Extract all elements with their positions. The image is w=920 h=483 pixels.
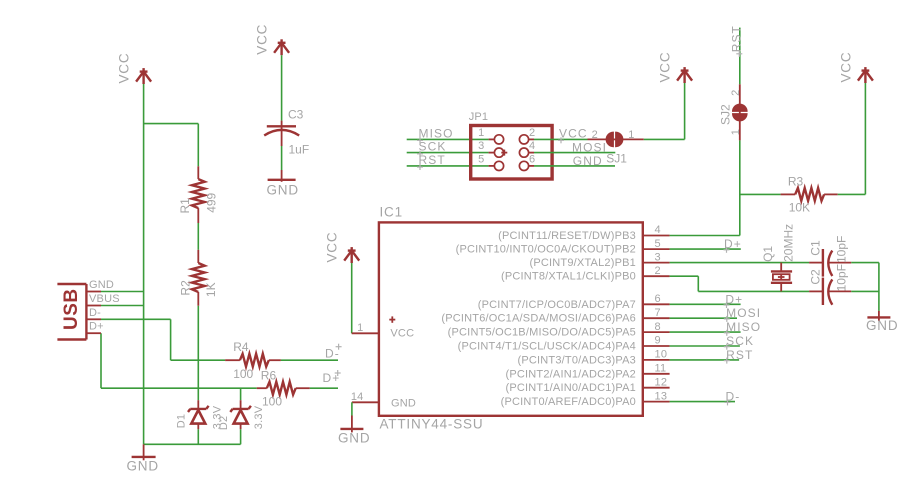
svg-text:(PCINT5/OC1B/MISO/DO/ADC5)PA5: (PCINT5/OC1B/MISO/DO/ADC5)PA5 bbox=[448, 327, 636, 339]
wire VBUS rail vertical bbox=[143, 84, 145, 444]
svg-text:JP1: JP1 bbox=[469, 111, 489, 123]
label D+ (pin5) bbox=[724, 237, 742, 253]
wire MISO to JP1 bbox=[407, 138, 489, 140]
wire SCK to JP1 bbox=[407, 152, 489, 154]
svg-text:(PCINT0/AREF/ADC0)PA0: (PCINT0/AREF/ADC0)PA0 bbox=[501, 396, 636, 408]
pin JP1-1 bbox=[478, 127, 503, 144]
pin IC1-6 PA7 bbox=[478, 293, 670, 311]
solder jumper SJ1 bbox=[588, 129, 644, 166]
wire R3 tee bbox=[740, 193, 781, 195]
wire R2 to D1 bbox=[197, 306, 199, 401]
ground GND (caps) bbox=[866, 311, 898, 333]
svg-text:D1: D1 bbox=[176, 414, 188, 428]
wire pin8 MISO bbox=[670, 331, 741, 333]
wire D- to R4 bbox=[171, 359, 226, 361]
wire pin13 D- bbox=[670, 401, 735, 403]
pin IC1-8 PA5 bbox=[448, 321, 670, 339]
svg-text:1K: 1K bbox=[204, 282, 218, 297]
pin IC1-7 PA6 bbox=[441, 307, 669, 325]
svg-text:7: 7 bbox=[655, 307, 661, 319]
pin IC1-14 GND bbox=[351, 391, 379, 403]
label MISO bbox=[417, 126, 454, 143]
pin IC1-12 PA1 bbox=[505, 376, 669, 394]
svg-text:12: 12 bbox=[655, 376, 668, 388]
svg-text:3.3V: 3.3V bbox=[253, 405, 265, 429]
svg-text:5: 5 bbox=[655, 238, 661, 250]
svg-text:ATTINY44-SSU: ATTINY44-SSU bbox=[380, 417, 484, 432]
svg-text:8: 8 bbox=[655, 321, 661, 333]
wire D- drop bbox=[170, 319, 172, 360]
svg-text:(PCINT7/ICP/OC0B/ADC7)PA7: (PCINT7/ICP/OC0B/ADC7)PA7 bbox=[478, 299, 636, 311]
wire right rail drop bbox=[878, 263, 880, 311]
svg-text:(PCINT8/XTAL1/CLKI)PB0: (PCINT8/XTAL1/CLKI)PB0 bbox=[501, 271, 636, 283]
wire pin9 SCK bbox=[670, 345, 740, 347]
pin USB GND bbox=[86, 291, 101, 293]
connector X1 USB bbox=[57, 284, 86, 340]
svg-text:13: 13 bbox=[655, 390, 668, 402]
label D+ bbox=[323, 370, 341, 385]
wire VCC to pin1 bbox=[351, 263, 353, 333]
svg-text:SCK: SCK bbox=[726, 334, 754, 348]
svg-text:100: 100 bbox=[262, 394, 282, 408]
wire D+ to R6 bbox=[101, 387, 257, 389]
wire pin2 XTAL1 path bbox=[670, 276, 810, 291]
supply VCC (C3) bbox=[255, 24, 290, 55]
svg-text:GND: GND bbox=[89, 279, 114, 291]
resistor R4 bbox=[225, 340, 281, 381]
svg-text:GND: GND bbox=[391, 398, 416, 410]
wire ground rail bbox=[144, 443, 241, 445]
svg-text:6: 6 bbox=[655, 293, 661, 305]
svg-text:D-: D- bbox=[325, 347, 340, 361]
svg-text:1uF: 1uF bbox=[289, 143, 310, 157]
wire RST stub bbox=[739, 28, 741, 85]
pin IC1-13 PA0 bbox=[501, 390, 670, 408]
wire pin10 RST bbox=[670, 359, 740, 361]
pin JP1-4 bbox=[519, 140, 535, 157]
solder jumper SJ2 bbox=[719, 84, 748, 140]
wire SJ2 to pin4 bbox=[739, 140, 741, 235]
wire JP1-4 MOSI bbox=[534, 152, 615, 154]
svg-text:1: 1 bbox=[730, 129, 742, 135]
svg-text:RST: RST bbox=[419, 153, 446, 167]
label RST (vertical) bbox=[729, 25, 743, 57]
pin IC1-3 PB1 bbox=[529, 251, 669, 269]
wire R4 to D- label bbox=[281, 359, 338, 361]
svg-text:VCC: VCC bbox=[838, 52, 853, 83]
wire R3 to VCC bbox=[838, 193, 866, 195]
svg-text:GND: GND bbox=[338, 431, 370, 446]
ground GND (bottom left) bbox=[127, 444, 159, 473]
wire R1 top drop bbox=[197, 124, 199, 167]
svg-text:3: 3 bbox=[655, 251, 661, 263]
svg-text:10K: 10K bbox=[789, 201, 810, 215]
svg-text:10: 10 bbox=[655, 349, 668, 361]
svg-text:6: 6 bbox=[529, 153, 535, 165]
svg-text:GND: GND bbox=[127, 459, 159, 474]
label D- bbox=[325, 344, 342, 361]
svg-text:SJ2: SJ2 bbox=[719, 104, 733, 125]
svg-text:14: 14 bbox=[351, 391, 364, 403]
crystal Q1 20MHz bbox=[761, 224, 796, 292]
pin USB D+ bbox=[86, 332, 101, 334]
svg-text:11: 11 bbox=[655, 363, 667, 375]
svg-text:SJ1: SJ1 bbox=[606, 151, 627, 165]
wire VCC to C3 bbox=[281, 55, 283, 120]
pin USB VBUS bbox=[86, 305, 101, 307]
label RST bbox=[417, 153, 446, 170]
svg-text:MISO: MISO bbox=[419, 126, 454, 140]
svg-text:Q1: Q1 bbox=[761, 246, 775, 262]
diode D2 (zener 3.3V) bbox=[218, 400, 265, 430]
svg-text:SCK: SCK bbox=[419, 140, 447, 154]
wire RST to JP1 bbox=[407, 165, 489, 167]
svg-text:R4: R4 bbox=[233, 340, 249, 354]
svg-text:(PCINT2/AIN1/ADC2)PA2: (PCINT2/AIN1/ADC2)PA2 bbox=[505, 368, 636, 380]
svg-text:VCC: VCC bbox=[390, 328, 414, 340]
svg-text:C1: C1 bbox=[808, 240, 822, 256]
resistor R2 bbox=[179, 250, 219, 306]
svg-text:20MHz: 20MHz bbox=[782, 224, 796, 262]
svg-text:MOSI: MOSI bbox=[572, 141, 607, 155]
svg-text:(PCINT10/INT0/OC0A/CKOUT)PB2: (PCINT10/INT0/OC0A/CKOUT)PB2 bbox=[456, 244, 636, 256]
pin IC1-11 PA2 bbox=[505, 363, 669, 381]
svg-text:D+: D+ bbox=[725, 292, 743, 306]
ic IC1 body bbox=[379, 205, 643, 432]
label MOSI (pin7) bbox=[724, 306, 761, 322]
wire R6 to D+ label bbox=[310, 387, 338, 389]
ground GND (C3) bbox=[267, 170, 299, 198]
svg-text:(PCINT11/RESET/DW)PB3: (PCINT11/RESET/DW)PB3 bbox=[498, 230, 636, 242]
wire SJ1 to VCC bbox=[644, 138, 685, 140]
pin IC1-5 PB2 bbox=[456, 238, 670, 256]
label SCK bbox=[417, 140, 446, 157]
svg-text:1: 1 bbox=[478, 127, 484, 139]
svg-text:R2: R2 bbox=[179, 280, 193, 296]
pin IC1-2 PB0 bbox=[501, 265, 670, 283]
svg-text:10pF: 10pF bbox=[834, 236, 848, 263]
svg-text:10pF: 10pF bbox=[834, 264, 848, 291]
wire D2 to ground rail bbox=[240, 429, 242, 444]
svg-text:5: 5 bbox=[478, 153, 484, 165]
supply VCC (mid) bbox=[658, 52, 693, 83]
wire R1-R2 link bbox=[197, 223, 199, 250]
label SCK (pin9) bbox=[724, 334, 754, 350]
resistor R3 bbox=[781, 174, 838, 214]
svg-text:USB: USB bbox=[61, 288, 82, 330]
svg-text:MISO: MISO bbox=[726, 320, 761, 334]
pin JP1-3 bbox=[478, 140, 507, 157]
diode D1 (zener 3.3V) bbox=[176, 400, 224, 429]
wire pin6 D+ bbox=[670, 303, 741, 305]
supply VCC (left, P+1) bbox=[117, 53, 152, 84]
wire USB VBUS bbox=[101, 305, 144, 307]
capacitor C3 1uF bbox=[264, 108, 309, 157]
svg-text:GND: GND bbox=[267, 183, 299, 198]
svg-text:GND: GND bbox=[573, 154, 603, 168]
svg-text:VCC: VCC bbox=[255, 24, 270, 55]
svg-text:R6: R6 bbox=[261, 368, 277, 382]
pin IC1-9 PA4 bbox=[458, 335, 670, 353]
label D+ (pin6) bbox=[724, 292, 744, 308]
svg-text:100: 100 bbox=[233, 367, 253, 381]
wire VCC tee to R1 bbox=[144, 123, 199, 125]
svg-text:499: 499 bbox=[205, 192, 219, 212]
wire USB GND bbox=[101, 291, 144, 293]
svg-text:9: 9 bbox=[655, 335, 661, 347]
capacitor C1 10pF bbox=[808, 236, 851, 277]
svg-text:RST: RST bbox=[729, 25, 743, 52]
svg-text:(PCINT6/OC1A/SDA/MOSI/ADC6)PA6: (PCINT6/OC1A/SDA/MOSI/ADC6)PA6 bbox=[441, 313, 636, 325]
connector JP1 bbox=[469, 111, 552, 179]
svg-text:RST: RST bbox=[726, 348, 753, 362]
wire VCC riser right bbox=[864, 83, 866, 194]
svg-text:VCC: VCC bbox=[559, 127, 588, 141]
wire D2 top bbox=[240, 388, 242, 400]
pin JP1-5 bbox=[478, 153, 503, 170]
wire USB D- bbox=[101, 318, 171, 320]
svg-text:D-: D- bbox=[89, 307, 101, 319]
label D- (pin13) bbox=[725, 390, 741, 406]
svg-text:4: 4 bbox=[529, 140, 535, 152]
wire pin3 XTAL2 row bbox=[670, 262, 810, 264]
ground GND (IC1) bbox=[338, 416, 370, 446]
wire JP1-2 to SJ1 bbox=[534, 138, 588, 140]
svg-text:C2: C2 bbox=[808, 269, 822, 285]
svg-text:(PCINT1/AIN0/ADC1)PA1: (PCINT1/AIN0/ADC1)PA1 bbox=[505, 382, 636, 394]
resistor R6 bbox=[257, 368, 310, 408]
wire C1 to right rail bbox=[851, 262, 879, 264]
wire USB D+ drop bbox=[100, 333, 102, 388]
wire pin7 MOSI bbox=[670, 317, 737, 319]
svg-text:1: 1 bbox=[357, 322, 363, 334]
wire VCC riser bbox=[684, 83, 686, 139]
svg-text:MOSI: MOSI bbox=[726, 306, 761, 320]
svg-text:4: 4 bbox=[655, 224, 661, 236]
label RST (pin10) bbox=[724, 348, 754, 364]
svg-text:(PCINT9/XTAL2)PB1: (PCINT9/XTAL2)PB1 bbox=[529, 257, 636, 269]
supply VCC (right) bbox=[838, 52, 873, 83]
wire C2 to right rail bbox=[851, 290, 879, 292]
svg-text:R1: R1 bbox=[178, 198, 192, 214]
wire pin4 to SJ2 net bbox=[670, 235, 740, 237]
wire C3 to GND bbox=[281, 146, 283, 170]
label VCC bbox=[558, 127, 588, 144]
wire JP1-6 GND bbox=[534, 165, 615, 167]
pin USB D- bbox=[86, 318, 101, 320]
svg-text:C3: C3 bbox=[288, 108, 304, 122]
svg-text:2: 2 bbox=[529, 127, 535, 139]
resistor R1 bbox=[178, 166, 219, 223]
svg-text:3: 3 bbox=[478, 140, 484, 152]
svg-text:2: 2 bbox=[592, 129, 598, 141]
svg-text:VCC: VCC bbox=[117, 53, 132, 84]
svg-text:(PCINT3/T0/ADC3)PA3: (PCINT3/T0/ADC3)PA3 bbox=[517, 354, 636, 366]
svg-text:D2: D2 bbox=[218, 416, 230, 430]
pin IC1-1 VCC bbox=[352, 322, 379, 334]
svg-text:R3: R3 bbox=[788, 174, 804, 188]
wire pin5 D+ bbox=[670, 248, 741, 250]
svg-text:GND: GND bbox=[866, 318, 898, 333]
svg-text:VCC: VCC bbox=[325, 232, 340, 263]
pin IC1-4 PB3 bbox=[498, 224, 669, 242]
svg-text:VBUS: VBUS bbox=[89, 293, 120, 305]
supply VCC (IC1 pin1) bbox=[325, 232, 360, 263]
svg-text:D+: D+ bbox=[89, 321, 104, 333]
svg-text:1: 1 bbox=[628, 129, 634, 141]
wire D1 to ground rail bbox=[197, 429, 199, 444]
label MISO (pin8) bbox=[724, 320, 761, 336]
pin IC1-10 PA3 bbox=[517, 349, 669, 367]
capacitor C2 10pF bbox=[808, 264, 851, 305]
pin JP1-2 bbox=[519, 127, 535, 144]
svg-text:(PCINT4/T1/SCL/USCK/ADC4)PA4: (PCINT4/T1/SCL/USCK/ADC4)PA4 bbox=[458, 341, 636, 353]
svg-text:2: 2 bbox=[730, 90, 742, 96]
svg-text:2: 2 bbox=[655, 265, 661, 277]
pin JP1-6 bbox=[519, 153, 535, 170]
wire pin14 to GND bbox=[351, 402, 353, 415]
svg-text:VCC: VCC bbox=[658, 52, 673, 83]
svg-text:IC1: IC1 bbox=[380, 205, 403, 220]
